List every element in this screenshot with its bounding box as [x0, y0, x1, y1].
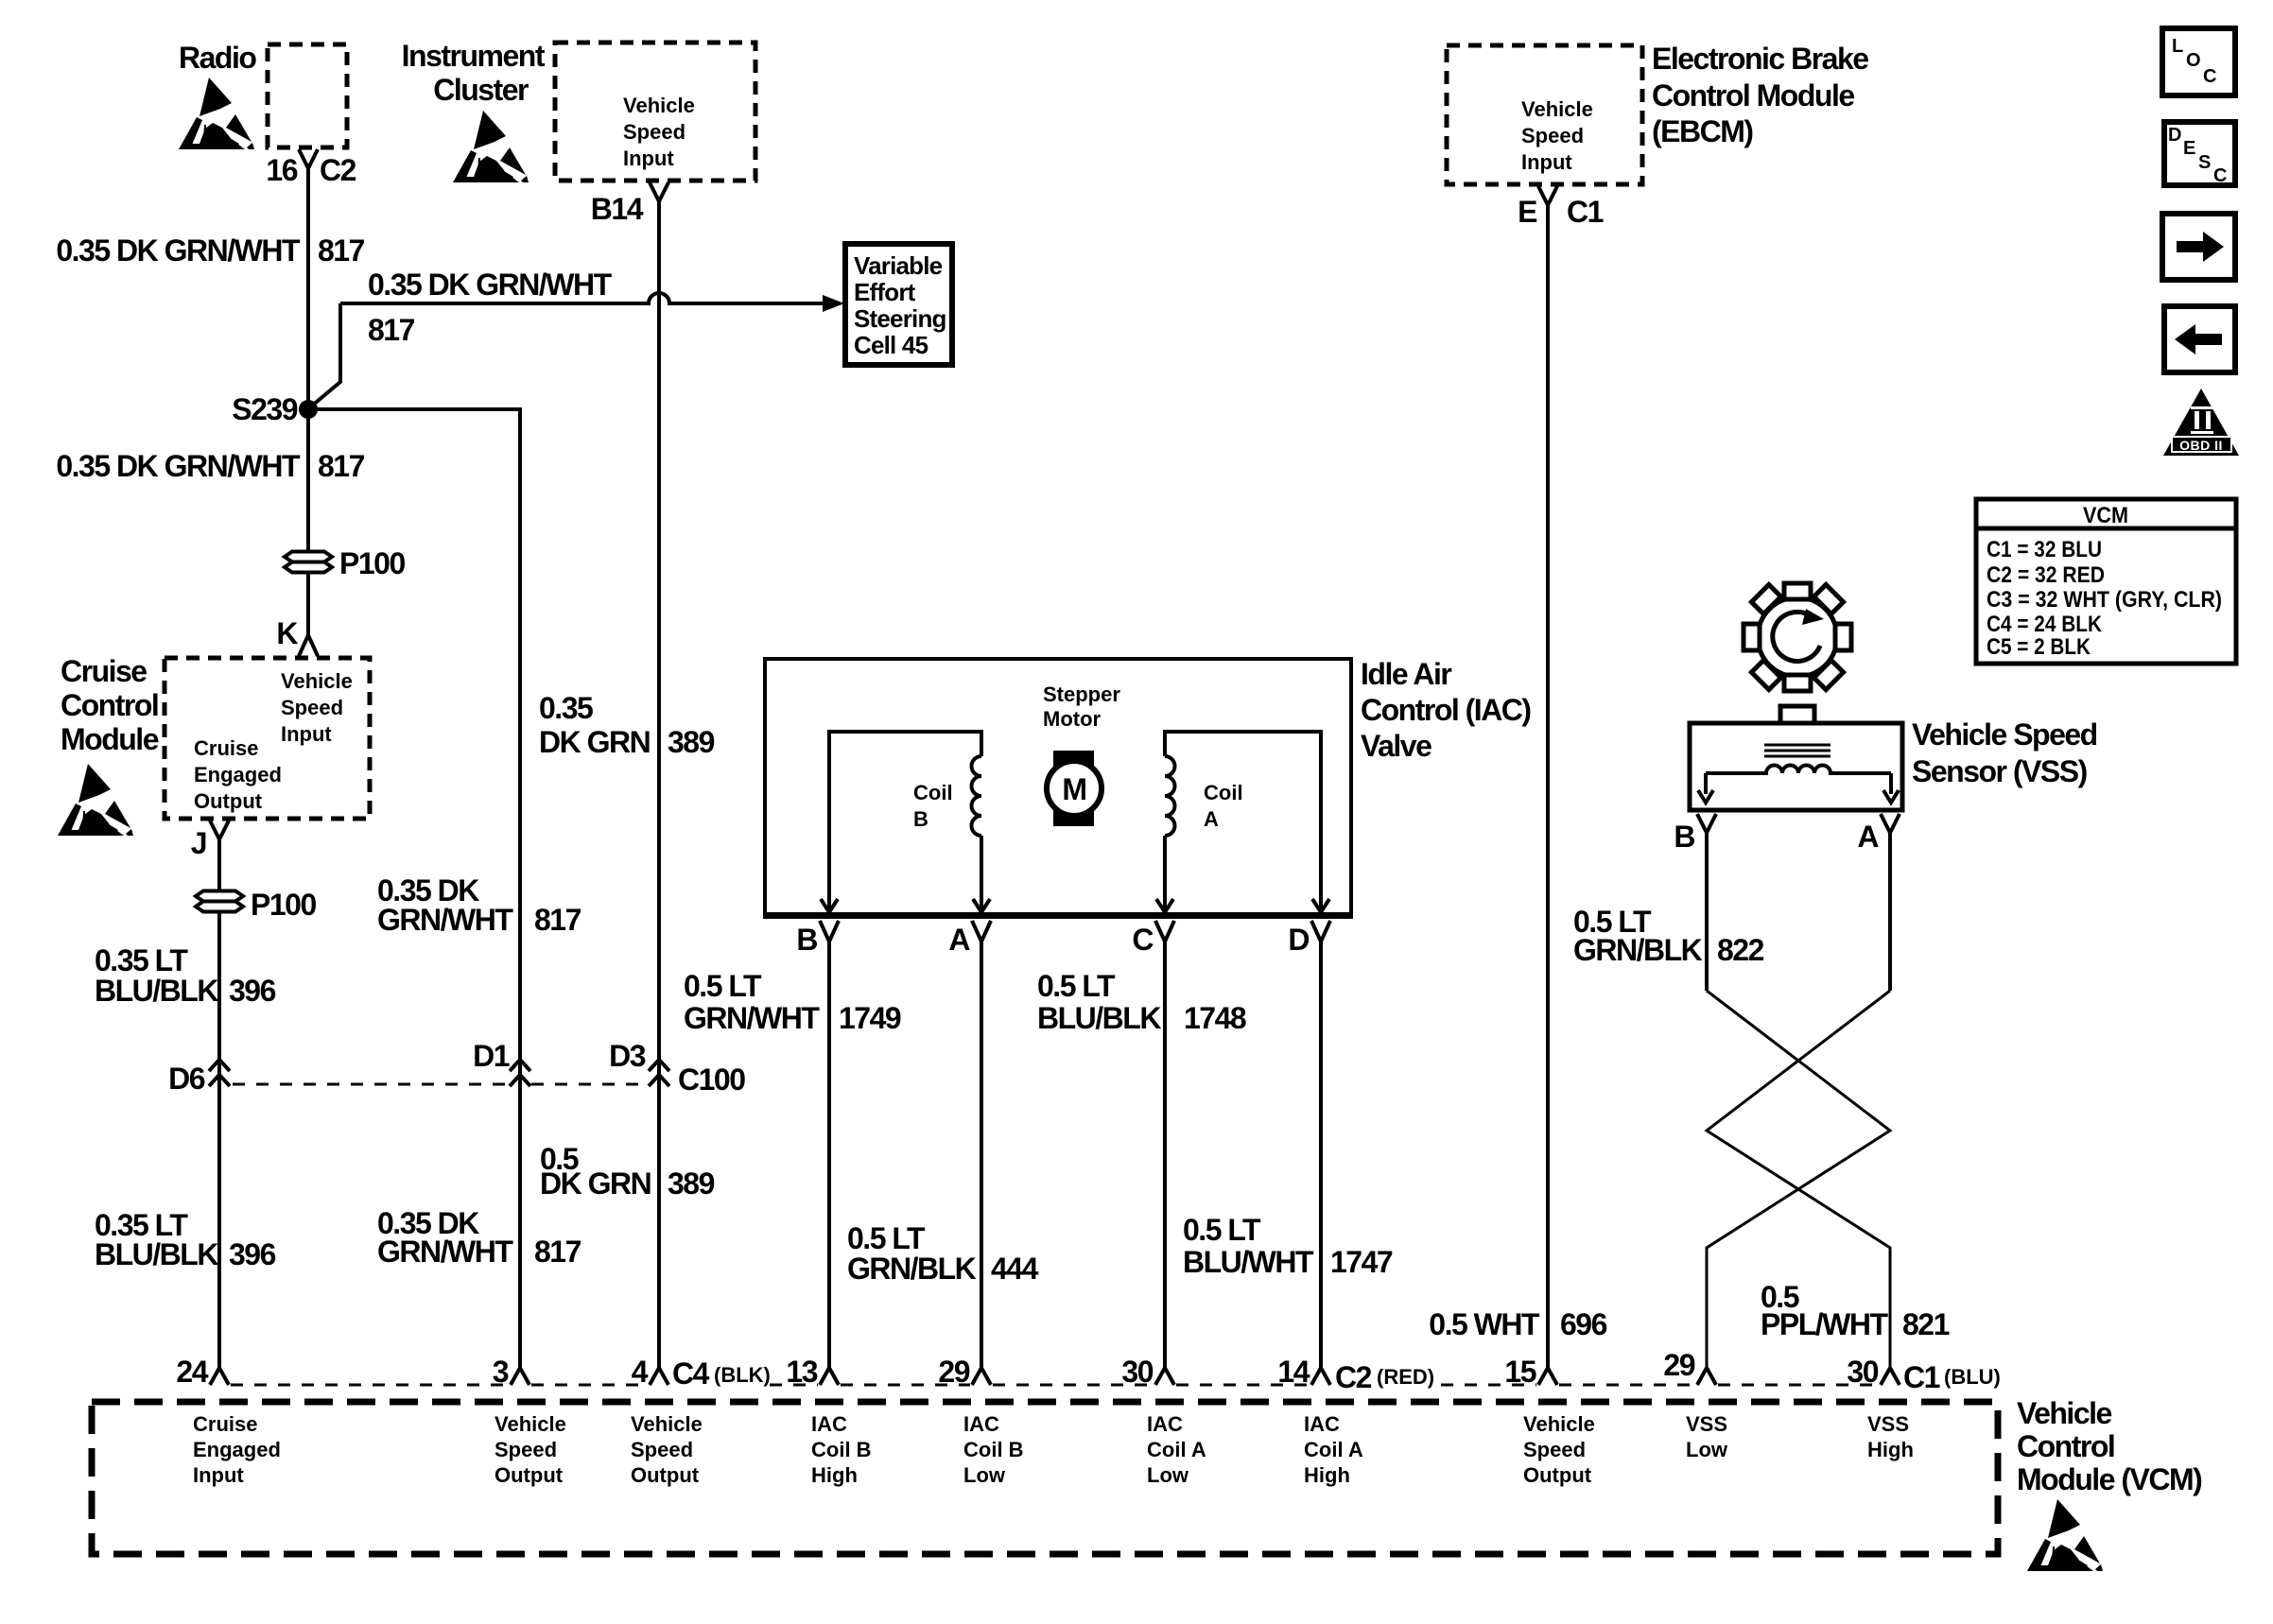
ESD symbol (VCM)	[2027, 1499, 2103, 1571]
svg-text:(RED): (RED)	[1377, 1365, 1434, 1389]
arrow at coil A right leg	[1312, 899, 1329, 912]
ESD symbol (Cruise Control Module)	[58, 764, 133, 836]
svg-text:Low: Low	[963, 1463, 1006, 1487]
svg-text:B: B	[796, 923, 817, 957]
svg-text:Steering: Steering	[854, 304, 946, 333]
svg-text:Speed: Speed	[623, 120, 685, 144]
svg-text:C3 = 32 WHT (GRY, CLR): C3 = 32 WHT (GRY, CLR)	[1987, 587, 2222, 613]
svg-text:Control: Control	[2017, 1429, 2114, 1463]
svg-text:VSS: VSS	[1686, 1412, 1727, 1436]
svg-text:C2: C2	[1335, 1360, 1372, 1394]
svg-text:696: 696	[1560, 1307, 1607, 1341]
svg-text:16: 16	[266, 153, 297, 187]
arrowhead into Variable Effort Steering box	[823, 295, 844, 312]
svg-text:Vehicle: Vehicle	[1521, 97, 1593, 121]
stepper motor M symbol	[1053, 751, 1094, 826]
svg-text:Vehicle: Vehicle	[281, 669, 353, 693]
connector Y at VCM pin 30	[1155, 1368, 1174, 1385]
connector Y at IAC pin C	[1155, 921, 1174, 942]
connector Y at VSS pin A	[1881, 814, 1900, 833]
Instrument Cluster dashed box	[555, 43, 755, 181]
VSS internal leads with arrows	[1706, 773, 1891, 794]
splice S239	[299, 400, 318, 419]
svg-text:C4 = 24 BLK: C4 = 24 BLK	[1987, 612, 2103, 637]
svg-text:Module (VCM): Module (VCM)	[2017, 1462, 2202, 1496]
connector P100 (grommet)	[285, 552, 332, 573]
connector Y at VCM pin 30 (VSS high)	[1881, 1368, 1900, 1385]
svg-text:High: High	[1867, 1438, 1914, 1461]
table VCM	[1976, 499, 2236, 664]
svg-text:Speed: Speed	[495, 1438, 557, 1461]
svg-text:817: 817	[318, 449, 365, 483]
connector Y at VSS pin B	[1697, 814, 1716, 833]
svg-text:0.5 LT: 0.5 LT	[1183, 1213, 1261, 1247]
svg-text:Output: Output	[1523, 1463, 1592, 1487]
svg-text:0.35 LT: 0.35 LT	[95, 943, 188, 977]
connector D3 chevrons at C100	[649, 1060, 669, 1086]
svg-text:0.5 LT: 0.5 LT	[847, 1221, 926, 1255]
svg-text:O: O	[2186, 50, 2201, 71]
svg-text:E: E	[2183, 138, 2195, 159]
svg-text:Output: Output	[495, 1463, 564, 1487]
svg-text:0.35 DK GRN/WHT: 0.35 DK GRN/WHT	[368, 268, 613, 302]
svg-text:Engaged: Engaged	[193, 1438, 281, 1461]
svg-text:C: C	[2203, 66, 2216, 87]
arrow at coil B right leg	[973, 899, 990, 912]
svg-text:821: 821	[1902, 1307, 1950, 1341]
svg-text:817: 817	[534, 1235, 581, 1269]
svg-text:P100: P100	[339, 546, 405, 580]
svg-text:C4: C4	[672, 1356, 710, 1391]
svg-text:(EBCM): (EBCM)	[1652, 114, 1753, 148]
svg-text:Cruise: Cruise	[193, 1412, 257, 1436]
VSS pickup coil	[1706, 766, 1891, 773]
wire branch S239 right to D1 column	[308, 409, 520, 1368]
connector Y at pin J	[210, 821, 229, 847]
svg-text:Coil B: Coil B	[811, 1438, 872, 1461]
svg-text:IAC: IAC	[811, 1412, 847, 1436]
svg-text:396: 396	[229, 1237, 276, 1271]
svg-text:B14: B14	[591, 192, 644, 226]
svg-text:1748: 1748	[1184, 1001, 1246, 1035]
svg-text:Cell 45: Cell 45	[854, 331, 928, 359]
svg-text:GRN/WHT: GRN/WHT	[684, 1001, 820, 1035]
connector Y at VCM pin 29	[972, 1368, 991, 1385]
svg-text:Instrument: Instrument	[402, 39, 546, 73]
svg-text:GRN/BLK: GRN/BLK	[1573, 933, 1703, 967]
connector Y at IAC pin B	[820, 921, 839, 942]
svg-text:C1 = 32 BLU: C1 = 32 BLU	[1987, 537, 2102, 562]
twisted pair crossover	[1707, 991, 1890, 1368]
connector Y at VCM pin 13	[820, 1368, 839, 1385]
wire B14 down to pin 4	[657, 210, 661, 1368]
wire branch from S239 up to horizontal run	[311, 303, 340, 406]
svg-text:Input: Input	[193, 1463, 244, 1487]
svg-text:Vehicle: Vehicle	[2017, 1396, 2112, 1430]
connector P100 (lower grommet)	[196, 891, 243, 912]
ESD symbol (Radio)	[179, 78, 254, 149]
svg-text:Valve: Valve	[1361, 729, 1431, 763]
connector Y at Instrument Cluster pin B14	[650, 182, 668, 210]
svg-text:High: High	[811, 1463, 858, 1487]
svg-text:389: 389	[668, 725, 715, 759]
connector Y at VCM pin 24	[210, 1368, 229, 1385]
svg-text:Coil A: Coil A	[1147, 1438, 1206, 1461]
connector Y at IAC pin A	[972, 921, 991, 942]
VCM pin header dashed line	[231, 1384, 1879, 1387]
svg-text:Input: Input	[1521, 150, 1572, 174]
icon box arrow right	[2162, 214, 2235, 280]
connector Y at VCM pin 3	[511, 1368, 529, 1385]
icon box arrow left	[2164, 306, 2235, 372]
EBCM dashed box	[1447, 45, 1642, 184]
svg-text:Low: Low	[1147, 1463, 1189, 1487]
svg-text:0.5 LT: 0.5 LT	[1037, 969, 1116, 1003]
wire P100 down to Cruise Control Module K	[306, 574, 310, 635]
wire P100 down to D6	[217, 913, 221, 1368]
svg-text:Sensor (VSS): Sensor (VSS)	[1912, 754, 2088, 788]
svg-text:Control: Control	[61, 688, 158, 722]
svg-text:BLU/WHT: BLU/WHT	[1183, 1245, 1314, 1279]
box Variable Effort Steering Cell 45	[845, 244, 952, 365]
connector Y at VCM pin 29 (VSS low)	[1697, 1368, 1716, 1385]
svg-text:C100: C100	[678, 1063, 745, 1097]
wire VSS B down	[1705, 833, 1709, 991]
box Vehicle Control Module (VCM) dashed	[92, 1402, 1998, 1554]
svg-text:29: 29	[1663, 1348, 1694, 1382]
svg-text:GRN/WHT: GRN/WHT	[377, 1235, 513, 1269]
svg-text:P100: P100	[251, 888, 316, 922]
svg-text:Output: Output	[194, 789, 263, 813]
svg-text:Input: Input	[281, 722, 332, 746]
svg-text:IAC: IAC	[963, 1412, 999, 1436]
svg-text:C1: C1	[1903, 1360, 1940, 1394]
box Idle Air Control (IAC) Valve	[765, 659, 1351, 917]
svg-text:BLU/BLK: BLU/BLK	[95, 1237, 218, 1271]
svg-text:B: B	[1674, 820, 1694, 854]
VSS core lines	[1764, 745, 1831, 756]
svg-text:IAC: IAC	[1304, 1412, 1340, 1436]
svg-text:Variable: Variable	[854, 251, 943, 280]
svg-text:Vehicle: Vehicle	[623, 94, 695, 117]
svg-text:Vehicle: Vehicle	[1523, 1412, 1595, 1436]
svg-text:Cruise: Cruise	[61, 654, 147, 688]
svg-text:1749: 1749	[839, 1001, 901, 1035]
svg-text:Control Module: Control Module	[1652, 78, 1854, 112]
arrow at coil B left leg	[821, 899, 838, 912]
svg-text:GRN/BLK: GRN/BLK	[847, 1252, 977, 1286]
coil A winding	[1165, 732, 1321, 913]
svg-text:(BLU): (BLU)	[1944, 1365, 2001, 1389]
svg-text:Cluster: Cluster	[433, 73, 529, 107]
wire S239 down to P100	[306, 409, 310, 550]
svg-text:C1: C1	[1567, 195, 1604, 229]
VSS connector tab	[1780, 706, 1814, 723]
Radio module dashed box	[268, 44, 347, 147]
ESD symbol (Instrument Cluster)	[453, 111, 529, 182]
svg-text:BLU/BLK: BLU/BLK	[1037, 1001, 1161, 1035]
svg-text:VCM: VCM	[2083, 503, 2128, 528]
connector D1 chevrons at C100	[510, 1060, 530, 1086]
svg-text:C2: C2	[320, 153, 356, 187]
svg-text:S: S	[2198, 152, 2211, 173]
Cruise Control Module dashed box	[165, 658, 370, 819]
svg-text:Speed: Speed	[281, 696, 343, 719]
arrow at coil A left leg	[1156, 899, 1173, 912]
connector Y at Radio pin 16 C2	[299, 149, 318, 181]
svg-text:0.5 LT: 0.5 LT	[684, 969, 762, 1003]
arrowhead of rotation arrow	[1802, 609, 1824, 625]
svg-text:Speed: Speed	[1523, 1438, 1586, 1461]
svg-text:Low: Low	[1686, 1438, 1728, 1461]
svg-text:A: A	[1857, 820, 1879, 854]
svg-text:D6: D6	[168, 1062, 205, 1096]
svg-text:Vehicle: Vehicle	[631, 1412, 703, 1436]
svg-text:High: High	[1304, 1463, 1350, 1487]
svg-text:Idle Air: Idle Air	[1361, 657, 1451, 691]
svg-text:389: 389	[668, 1166, 715, 1201]
connector Y at pin K	[299, 635, 318, 656]
svg-text:Stepper: Stepper	[1043, 682, 1120, 706]
connector C100 dashed line	[233, 1083, 648, 1086]
svg-text:E: E	[1518, 195, 1537, 229]
svg-text:Electronic Brake: Electronic Brake	[1652, 42, 1868, 76]
svg-text:D: D	[2168, 125, 2181, 146]
svg-text:Control (IAC): Control (IAC)	[1361, 693, 1531, 727]
svg-text:Vehicle: Vehicle	[495, 1412, 566, 1436]
gear icon (reluctor wheel)	[1744, 583, 1851, 691]
svg-text:Output: Output	[631, 1463, 700, 1487]
svg-text:A: A	[1204, 807, 1219, 831]
svg-text:Speed: Speed	[1521, 124, 1584, 147]
svg-text:BLU/BLK: BLU/BLK	[95, 974, 218, 1008]
svg-text:PPL/WHT: PPL/WHT	[1761, 1307, 1888, 1341]
svg-text:A: A	[948, 923, 970, 957]
svg-text:Vehicle Speed: Vehicle Speed	[1912, 717, 2097, 752]
svg-text:Module: Module	[61, 722, 159, 756]
wire IAC A to pin 29	[980, 942, 983, 1368]
wire IAC D to pin 14	[1319, 942, 1323, 1368]
svg-text:Coil A: Coil A	[1304, 1438, 1363, 1461]
svg-text:D: D	[1288, 923, 1309, 957]
svg-text:VSS: VSS	[1867, 1412, 1909, 1436]
svg-text:Cruise: Cruise	[194, 736, 258, 760]
svg-text:0.35 DK GRN/WHT: 0.35 DK GRN/WHT	[56, 449, 301, 483]
svg-text:K: K	[276, 616, 298, 650]
svg-text:Coil B: Coil B	[963, 1438, 1024, 1461]
svg-text:D3: D3	[609, 1039, 646, 1073]
wire VSS A down	[1888, 833, 1892, 991]
coil B winding	[829, 732, 981, 913]
wire IAC C to pin 30	[1163, 942, 1167, 1368]
connector Y at VCM pin 4	[650, 1368, 668, 1385]
svg-text:822: 822	[1717, 933, 1764, 967]
svg-text:IAC: IAC	[1147, 1412, 1183, 1436]
svg-text:Coil: Coil	[913, 781, 953, 804]
svg-text:817: 817	[368, 313, 415, 347]
svg-text:Radio: Radio	[179, 41, 256, 75]
wire horizontal 817 branch to Variable Effort Steering with hop over B14 wire	[340, 293, 824, 303]
icon box DESC	[2164, 122, 2235, 185]
svg-text:J: J	[191, 826, 206, 860]
svg-text:D1: D1	[473, 1039, 510, 1073]
connector Y at VCM pin 15	[1538, 1368, 1557, 1385]
svg-text:0.5 WHT: 0.5 WHT	[1429, 1307, 1540, 1341]
svg-text:0.35 DK GRN/WHT: 0.35 DK GRN/WHT	[56, 233, 301, 268]
box Vehicle Speed Sensor (VSS)	[1690, 723, 1902, 810]
wire IAC B to pin 13	[827, 942, 831, 1368]
svg-text:C2 = 32 RED: C2 = 32 RED	[1987, 562, 2105, 588]
svg-text:M: M	[1062, 772, 1085, 806]
wire 817 from Radio 16 down to S239	[306, 168, 310, 409]
svg-text:Motor: Motor	[1043, 707, 1102, 731]
svg-text:C: C	[1132, 923, 1154, 957]
svg-text:S239: S239	[232, 392, 297, 426]
svg-text:DK GRN: DK GRN	[540, 1166, 651, 1201]
svg-text:817: 817	[318, 233, 365, 268]
svg-text:C5 = 2 BLK: C5 = 2 BLK	[1987, 634, 2091, 660]
connector Y at VCM pin 14	[1311, 1368, 1330, 1385]
connector D6 chevrons at C100	[209, 1060, 230, 1086]
svg-text:(BLK): (BLK)	[714, 1363, 771, 1387]
svg-text:0.35: 0.35	[539, 691, 593, 725]
wire J down to P100	[217, 839, 221, 890]
svg-text:817: 817	[534, 903, 581, 937]
svg-text:Coil: Coil	[1204, 781, 1243, 804]
svg-text:Speed: Speed	[631, 1438, 693, 1461]
icon box LOC	[2162, 28, 2235, 95]
svg-text:24: 24	[176, 1355, 208, 1389]
svg-text:1747: 1747	[1330, 1245, 1393, 1279]
svg-text:B: B	[913, 807, 928, 831]
connector Y at EBCM pin E C1	[1538, 186, 1557, 214]
svg-text:Engaged: Engaged	[194, 763, 282, 786]
svg-text:DK GRN: DK GRN	[539, 725, 650, 759]
connector Y at IAC pin D	[1311, 921, 1330, 942]
svg-text:C: C	[2213, 165, 2227, 186]
svg-text:Effort: Effort	[854, 278, 916, 306]
svg-text:GRN/WHT: GRN/WHT	[377, 903, 513, 937]
wire 696 EBCM to pin 15	[1546, 205, 1550, 1368]
svg-text:L: L	[2172, 36, 2183, 57]
svg-text:444: 444	[991, 1252, 1039, 1286]
svg-text:OBD II: OBD II	[2179, 438, 2223, 453]
icon OBD II triangle	[2163, 389, 2239, 456]
svg-text:396: 396	[229, 974, 276, 1008]
svg-text:Input: Input	[623, 147, 674, 170]
